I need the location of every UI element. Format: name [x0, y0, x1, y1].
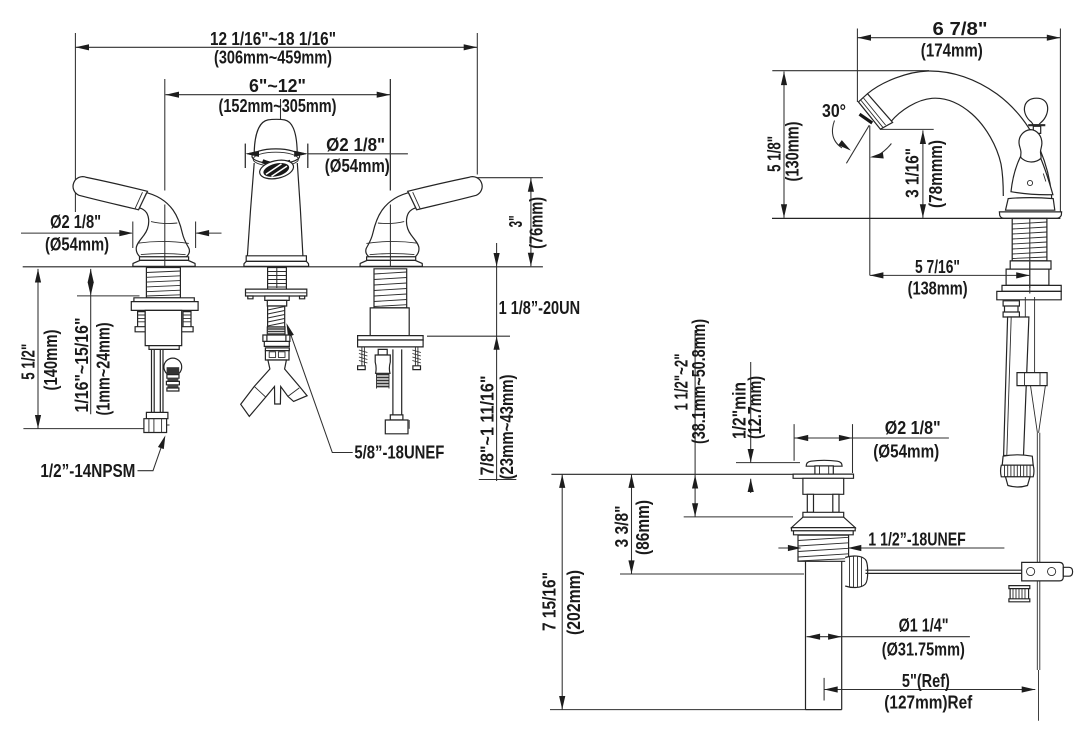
dimension 5 7/16 [870, 262, 1030, 288]
dimension 1 1/2-18UNEF arrows [778, 545, 1004, 551]
svg-text:(76mm): (76mm) [527, 197, 547, 249]
svg-text:(127mm)Ref: (127mm)Ref [884, 693, 973, 713]
spout dome [254, 119, 297, 152]
dimension 1/2 min [736, 362, 800, 493]
right valve outlet tube [393, 349, 402, 415]
leader 5/8-18UNEF [289, 329, 353, 453]
side view centerline [1029, 219, 1031, 294]
clevis strap [1022, 562, 1064, 581]
30 degree leader arc [832, 121, 852, 154]
arrowhead of 5/8 leader [284, 322, 294, 337]
outlet vertical reference [869, 126, 871, 276]
svg-text:3 1/16": 3 1/16" [903, 148, 923, 198]
svg-text:3": 3" [506, 215, 526, 227]
svg-text:7/8"~1 11/16": 7/8"~1 11/16" [478, 376, 498, 476]
svg-text:(Ø54mm): (Ø54mm) [325, 156, 390, 176]
svg-text:1/16"~15/16": 1/16"~15/16" [72, 318, 92, 413]
pivot ball nut [845, 556, 867, 588]
right valve below deck [358, 269, 424, 434]
side handle ball [1024, 98, 1047, 125]
right handle centerline [389, 79, 391, 267]
svg-text:6"~12": 6"~12" [249, 76, 306, 96]
svg-text:Ø1 1/4": Ø1 1/4" [899, 616, 949, 636]
spout diameter arrows redrawn on top [245, 144, 307, 168]
side handle lever knob [1019, 130, 1042, 168]
svg-text:Ø2 1/8": Ø2 1/8" [326, 135, 385, 155]
dimension 7/8~1 11/16 right deck range [427, 243, 516, 481]
left handle base [140, 257, 189, 261]
svg-text:(306mm~459mm): (306mm~459mm) [214, 48, 332, 68]
lift rod clamp [1017, 373, 1047, 386]
left valve side inlet [164, 358, 182, 376]
dimension drain flange diameter [794, 424, 949, 473]
side escutcheon [999, 212, 1061, 218]
right valve mounting bolts and springs [362, 347, 418, 366]
svg-text:5 7/16": 5 7/16" [915, 257, 960, 277]
spout aerator face [258, 157, 295, 181]
svg-text:(Ø31.75mm): (Ø31.75mm) [882, 640, 965, 660]
svg-text:5 1/8": 5 1/8" [765, 136, 785, 172]
dimension 12 1/16~18 1/16 overall span [75, 33, 477, 212]
svg-text:3 3/8": 3 3/8" [612, 506, 632, 548]
dimension 1 1/2~2 [684, 330, 793, 517]
dimension 5 1/2 below deck left [23, 269, 152, 429]
drain flange [793, 474, 853, 478]
svg-text:7 15/16": 7 15/16" [540, 572, 560, 631]
spout outlet cap [858, 94, 892, 130]
svg-text:(23mm~43mm): (23mm~43mm) [497, 374, 517, 479]
svg-text:Ø2 1/8": Ø2 1/8" [885, 418, 941, 438]
svg-text:(12.7mm): (12.7mm) [745, 376, 765, 439]
dimension 7 15/16 [550, 474, 806, 709]
spout centerline [277, 99, 281, 288]
svg-text:(38.1mm~50.8mm): (38.1mm~50.8mm) [689, 319, 709, 444]
svg-text:1/2”-14NPSM: 1/2”-14NPSM [40, 461, 135, 481]
SECTION: front view parts [23, 79, 543, 434]
reference line outlet level [881, 128, 934, 130]
svg-text:(78mmm): (78mmm) [926, 140, 946, 208]
right handle (mirror) [360, 177, 482, 267]
deck line drain view [551, 473, 793, 475]
dimension left handle diameter [21, 222, 222, 249]
drain threaded collar [798, 535, 849, 561]
deck line front view [23, 266, 543, 268]
deck line side view [772, 217, 1060, 219]
SECTION: side view [772, 29, 1062, 721]
left handle lever [73, 177, 147, 210]
drain bell [792, 517, 856, 527]
svg-text:(86mm): (86mm) [633, 500, 653, 555]
dimension 3 1/16 outlet height [920, 130, 926, 218]
lift rod lower [1037, 433, 1040, 721]
tailpipe [806, 561, 842, 709]
dimension 5 inch ref [824, 678, 1035, 701]
svg-text:1 1/2”-18UNEF: 1 1/2”-18UNEF [868, 530, 966, 550]
dimension 1/16~15/16 deck thickness [77, 269, 140, 414]
drain body cup [803, 478, 844, 494]
svg-text:1 1/8”-20UN: 1 1/8”-20UN [499, 298, 580, 318]
supply hose [1004, 317, 1029, 456]
lift rod upper [1025, 297, 1034, 373]
spout collar ring [252, 149, 300, 164]
svg-text:(174mm): (174mm) [921, 41, 983, 61]
hose end nut [1001, 455, 1034, 487]
left supply nut [146, 412, 168, 418]
spout below deck [241, 268, 307, 417]
dimension 3 3/8 [620, 474, 804, 574]
leader 1/2-14NPSM [138, 434, 169, 470]
svg-text:(140mm): (140mm) [41, 329, 61, 390]
svg-text:5"(Ref): 5"(Ref) [902, 671, 950, 691]
dimension 6~12 handle centers [165, 79, 390, 191]
left valve below deck [131, 268, 198, 433]
dimension tailpipe diameter [807, 634, 970, 640]
stream direction arrow [869, 144, 891, 161]
lift rod V guide [1031, 386, 1046, 433]
supply connection fitting [1003, 301, 1019, 317]
SECTION: front view dims [21, 33, 543, 481]
svg-text:(152mm~305mm): (152mm~305mm) [219, 96, 337, 116]
side handle screw [1027, 180, 1032, 185]
left handle centerline [164, 79, 166, 267]
reference line spout top [772, 70, 929, 72]
spout front view [244, 119, 309, 266]
svg-text:30°: 30° [822, 101, 846, 121]
svg-text:Ø2 1/8": Ø2 1/8" [50, 212, 101, 232]
svg-text:6 7/8": 6 7/8" [933, 19, 988, 39]
dimension spout diameter [245, 144, 408, 168]
spring clip [1009, 586, 1030, 602]
svg-text:5/8”-18UNEF: 5/8”-18UNEF [354, 443, 444, 463]
side handle skirt [1011, 157, 1053, 195]
right valve cartridge [378, 349, 387, 355]
svg-text:(130mm): (130mm) [783, 121, 803, 181]
left handle body and bell [73, 177, 195, 267]
side body bell [1006, 198, 1055, 211]
svg-text:(Ø54mm): (Ø54mm) [45, 235, 109, 255]
svg-text:(Ø54mm): (Ø54mm) [873, 442, 939, 462]
spout Y hose splitter [241, 360, 307, 416]
dimension 5 1/8 spout height [781, 72, 787, 218]
SECTION: drain [550, 330, 1073, 710]
pivot rod [866, 570, 1022, 573]
svg-text:(202mm): (202mm) [564, 570, 584, 635]
pop-up cap [806, 460, 842, 466]
svg-text:12 1/16"~18 1/16": 12 1/16"~18 1/16" [210, 29, 336, 49]
side shank below deck [997, 219, 1061, 300]
dimension 6 7/8 spout reach [857, 29, 1060, 214]
svg-text:(1mm~24mm): (1mm~24mm) [94, 323, 114, 416]
30 degree face line [846, 125, 869, 163]
spout arc tube [868, 71, 1053, 208]
dimension 3 inch handle height [477, 178, 543, 267]
svg-text:(138mm): (138mm) [908, 279, 968, 299]
drain cage [807, 494, 839, 512]
svg-text:5 1/2": 5 1/2" [19, 344, 39, 380]
